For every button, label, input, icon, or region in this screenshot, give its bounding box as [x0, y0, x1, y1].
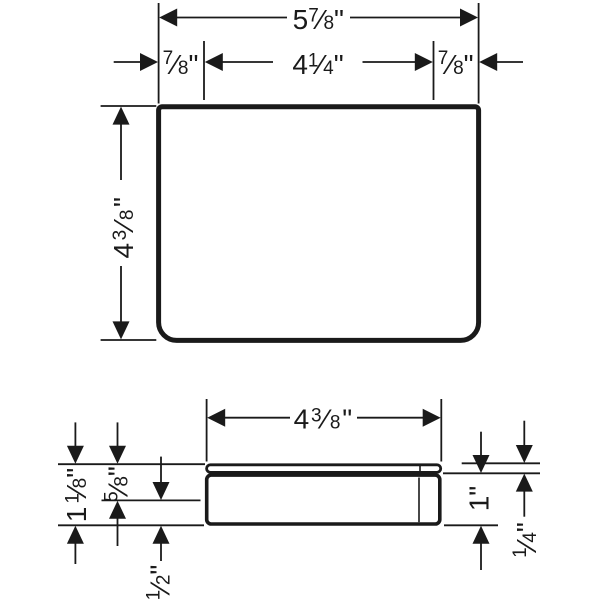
- dimension 1/2 inch: down arrow: [153, 482, 170, 500]
- dimension 7/8 inch right: arrow pointing left: [479, 53, 497, 71]
- dimension 7/8 inch left: outside tail: [114, 61, 141, 63]
- extension line: body bottom level, right (y=525.3): [444, 524, 498, 526]
- dimension 7/8 inch right: outside tail: [496, 61, 523, 63]
- extension line: side view right (x=441.3): [440, 399, 442, 462]
- top view: shelf outline (rounded rectangle): [159, 107, 479, 341]
- dimension 1 inch: lower tail: [480, 542, 482, 570]
- side view: body (wall bracket) outline: [207, 475, 440, 524]
- dimension 4 1/4 inch: right arrow: [415, 53, 433, 71]
- extension line: mid level (y=500.4): [102, 499, 201, 501]
- dimension 1 inch: up arrow: [473, 526, 490, 544]
- extension line: inner left (x=204): [203, 41, 205, 100]
- svg-text:43⁄8": 43⁄8": [294, 404, 354, 435]
- label 4 3/8 inch (rotated): [108, 195, 139, 259]
- dimension 5 7/8 inch: right line segment: [350, 17, 461, 19]
- svg-text:41⁄4": 41⁄4": [292, 49, 343, 80]
- dimension 1 1/8 inch: up arrow: [67, 526, 84, 544]
- dimension 1 1/8 inch: down arrow: [67, 446, 84, 464]
- dimension 4 3/8 inch: lower line segment: [120, 266, 122, 322]
- label 4 1/4 inch: [292, 49, 343, 80]
- extension line: top view left edge (x=158.6): [158, 3, 160, 104]
- dimension 1/4 inch: up arrow: [516, 474, 533, 492]
- dimension 4 3/8 inch (side): left line segment: [224, 417, 290, 419]
- extension line: plate top level, left (y=464.2): [58, 463, 205, 465]
- dimension 4 3/8 inch: down arrow: [113, 321, 130, 339]
- dimension 4 1/4 inch: left arrow: [205, 53, 223, 71]
- svg-text:43⁄8": 43⁄8": [108, 195, 139, 259]
- dimension 4 3/8 inch (side): right line segment: [357, 417, 423, 419]
- extension line: inner right (x=433.5): [433, 41, 435, 100]
- side view: body divider line: [418, 478, 420, 523]
- dimension 4 3/8 inch (side): right arrow: [423, 409, 441, 427]
- extension line: side view left (x=206.6): [206, 399, 208, 462]
- dimension 1 inch: down arrow: [473, 455, 490, 473]
- dimension 1/4 inch: lower tail: [523, 490, 525, 517]
- dimension 4 3/8 inch: upper line segment: [120, 123, 122, 180]
- extension line: plate top level, right (y=463.3): [462, 462, 540, 464]
- extension line: top view top edge, to the left (y=106): [101, 105, 157, 107]
- label 7/8 inch (left): [163, 48, 199, 80]
- label 7/8 inch (right): [438, 48, 474, 80]
- dimension 1/4 inch: down arrow: [516, 445, 533, 463]
- label 5/8 inch (rotated): [102, 466, 134, 502]
- label 1 1/8 inch (rotated): [61, 468, 92, 522]
- dimension 1/4 inch: upper tail: [523, 421, 525, 447]
- dimension 1 inch: upper tail: [480, 432, 482, 457]
- dimension 4 1/4 inch: right line segment: [363, 61, 416, 63]
- dimension 4 3/8 inch: up arrow: [113, 107, 130, 125]
- extension line: body top level, right (y=473.3): [443, 472, 540, 474]
- dimension 5/8 inch: up arrow: [109, 501, 126, 519]
- label 1/4 inch (rotated): [510, 522, 542, 558]
- dimension 5/8 inch: upper tail: [117, 422, 119, 447]
- dimension 4 1/4 inch: left line segment: [222, 61, 273, 63]
- dimension 5 7/8 inch: left arrow: [159, 9, 177, 27]
- side view: glass plate (thin top slab): [207, 465, 441, 473]
- dimension 1 1/8 inch: lower tail: [74, 542, 76, 564]
- label 1/2 inch (rotated): [144, 565, 176, 600]
- dimension 7/8 inch left: arrow pointing right: [140, 53, 158, 71]
- side view: plate divider line: [419, 465, 421, 473]
- label 1 inch (rotated): [464, 486, 495, 512]
- dimension 5/8 inch: lower tail: [117, 517, 119, 546]
- dimension 1/2 inch: lower tail: [160, 542, 162, 561]
- dimension 1 1/8 inch: upper tail: [74, 422, 76, 447]
- dimension 1/2 inch: up arrow: [153, 526, 170, 544]
- svg-text:1": 1": [464, 486, 495, 512]
- extension line: body bottom level, left (y=525.3): [58, 524, 204, 526]
- dimension 5/8 inch: down arrow: [109, 446, 126, 464]
- dimension 5 7/8 inch: left line segment: [176, 17, 287, 19]
- dimension 4 3/8 inch (side): left arrow: [207, 409, 225, 427]
- dimension 5 7/8 inch: right arrow: [460, 9, 478, 27]
- dimension 1/2 inch: upper tail: [160, 457, 162, 484]
- label 4 3/8 inch (side): [294, 404, 354, 435]
- extension line: top view bottom edge, to the left (y=340): [101, 339, 157, 341]
- extension line: top view right edge (x=478.6): [478, 3, 480, 104]
- svg-text:57⁄8": 57⁄8": [293, 4, 344, 35]
- label 5 7/8 inch: [293, 4, 344, 35]
